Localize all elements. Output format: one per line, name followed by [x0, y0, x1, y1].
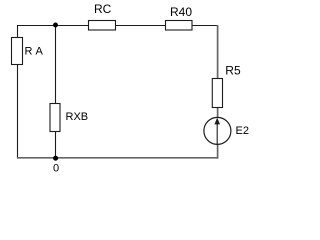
svg-text:R5: R5 — [225, 64, 241, 78]
svg-text:RXВ: RXВ — [66, 111, 89, 123]
wire left — [17, 25, 19, 159]
svg-text:E2: E2 — [236, 125, 249, 137]
wire top — [17, 25, 218, 27]
resistor R5 — [212, 64, 241, 108]
resistor RA — [12, 38, 44, 65]
svg-text:RC: RC — [94, 2, 112, 16]
svg-text:0: 0 — [53, 162, 59, 174]
wire bottom — [17, 157, 219, 159]
node junction top — [53, 23, 58, 28]
resistor R40 — [166, 5, 193, 30]
resistor RXB — [50, 104, 88, 132]
svg-text:R А: R А — [25, 45, 44, 57]
wire right — [217, 25, 219, 159]
current source E2 — [204, 117, 249, 144]
svg-text:R40: R40 — [170, 5, 192, 19]
node junction bottom — [53, 156, 58, 161]
wire middle branch — [55, 25, 57, 159]
resistor RC — [89, 2, 116, 30]
